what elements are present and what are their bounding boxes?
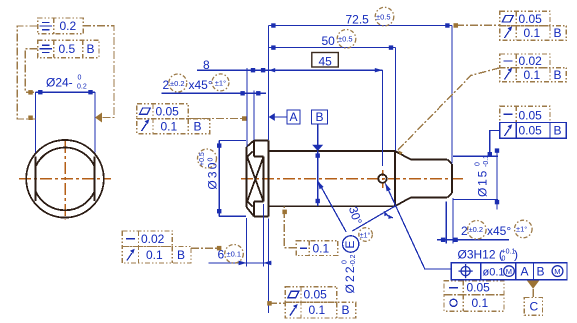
svg-text:B: B <box>316 110 324 124</box>
svg-text:0.1: 0.1 <box>313 242 330 256</box>
svg-text:Ø3H12 (: Ø3H12 ( <box>458 248 503 262</box>
svg-text:0.05: 0.05 <box>519 12 543 26</box>
svg-text:0: 0 <box>208 158 215 162</box>
svg-text:B: B <box>342 303 350 317</box>
svg-text:x45°: x45° <box>189 78 213 92</box>
svg-text:0.1: 0.1 <box>161 120 178 134</box>
svg-text:A: A <box>290 110 298 124</box>
svg-text:±1°: ±1° <box>360 231 371 239</box>
svg-text:M: M <box>554 267 560 276</box>
svg-text:0.5: 0.5 <box>59 42 76 56</box>
svg-text:A: A <box>521 264 529 278</box>
svg-text:±0.2: ±0.2 <box>170 79 185 88</box>
svg-text:B: B <box>194 120 202 134</box>
svg-text:0.2: 0.2 <box>77 83 87 90</box>
svg-text:0.1: 0.1 <box>146 248 163 262</box>
svg-text:0.05: 0.05 <box>519 109 543 123</box>
svg-text:Ø22: Ø22 <box>343 264 357 293</box>
svg-text:±0.2: ±0.2 <box>469 225 484 234</box>
svg-text:0.05: 0.05 <box>156 105 180 119</box>
svg-text:C: C <box>530 300 539 314</box>
svg-text:0.1: 0.1 <box>524 26 541 40</box>
svg-text:0.1: 0.1 <box>472 296 489 310</box>
svg-text:±1°: ±1° <box>215 79 226 88</box>
svg-text:2: 2 <box>461 224 468 238</box>
svg-text:0.1: 0.1 <box>309 303 326 317</box>
svg-text:B: B <box>554 68 562 82</box>
svg-text:0.1: 0.1 <box>524 68 541 82</box>
svg-text:50: 50 <box>322 34 336 48</box>
svg-text:72.5: 72.5 <box>346 13 370 27</box>
svg-text:-0.1: -0.1 <box>483 155 490 167</box>
svg-text:B: B <box>554 26 562 40</box>
svg-text:Ø30: Ø30 <box>206 160 220 189</box>
svg-text:B: B <box>554 124 562 138</box>
svg-text:Ø15: Ø15 <box>476 169 490 197</box>
svg-text:±0.1: ±0.1 <box>227 250 242 259</box>
svg-text:Ø24-: Ø24- <box>46 76 73 90</box>
svg-text:0.05: 0.05 <box>304 288 328 302</box>
svg-text:±0.5: ±0.5 <box>338 35 353 44</box>
svg-text:E: E <box>343 241 357 249</box>
svg-text:8: 8 <box>203 58 210 72</box>
svg-text:0.05: 0.05 <box>467 281 491 295</box>
svg-text:x45°: x45° <box>487 224 511 238</box>
svg-text:0.05: 0.05 <box>519 124 543 138</box>
svg-text:±1°: ±1° <box>516 225 527 234</box>
svg-text:0: 0 <box>502 256 506 263</box>
svg-text:M: M <box>506 267 512 276</box>
svg-text:-0.2: -0.2 <box>350 254 357 266</box>
svg-text:0.02: 0.02 <box>141 232 165 246</box>
svg-text:0: 0 <box>475 162 482 166</box>
svg-text:0: 0 <box>342 260 349 264</box>
svg-text:B: B <box>87 42 95 56</box>
svg-text:0.2: 0.2 <box>60 19 77 33</box>
svg-text:ø0.1: ø0.1 <box>483 266 505 278</box>
svg-text:0.02: 0.02 <box>519 54 543 68</box>
svg-text:+0.5: +0.5 <box>199 152 206 166</box>
svg-text:0: 0 <box>78 75 82 82</box>
svg-text:±0.5: ±0.5 <box>376 13 391 22</box>
svg-text:B: B <box>537 264 545 278</box>
svg-text:): ) <box>514 248 518 262</box>
svg-text:B: B <box>177 248 185 262</box>
